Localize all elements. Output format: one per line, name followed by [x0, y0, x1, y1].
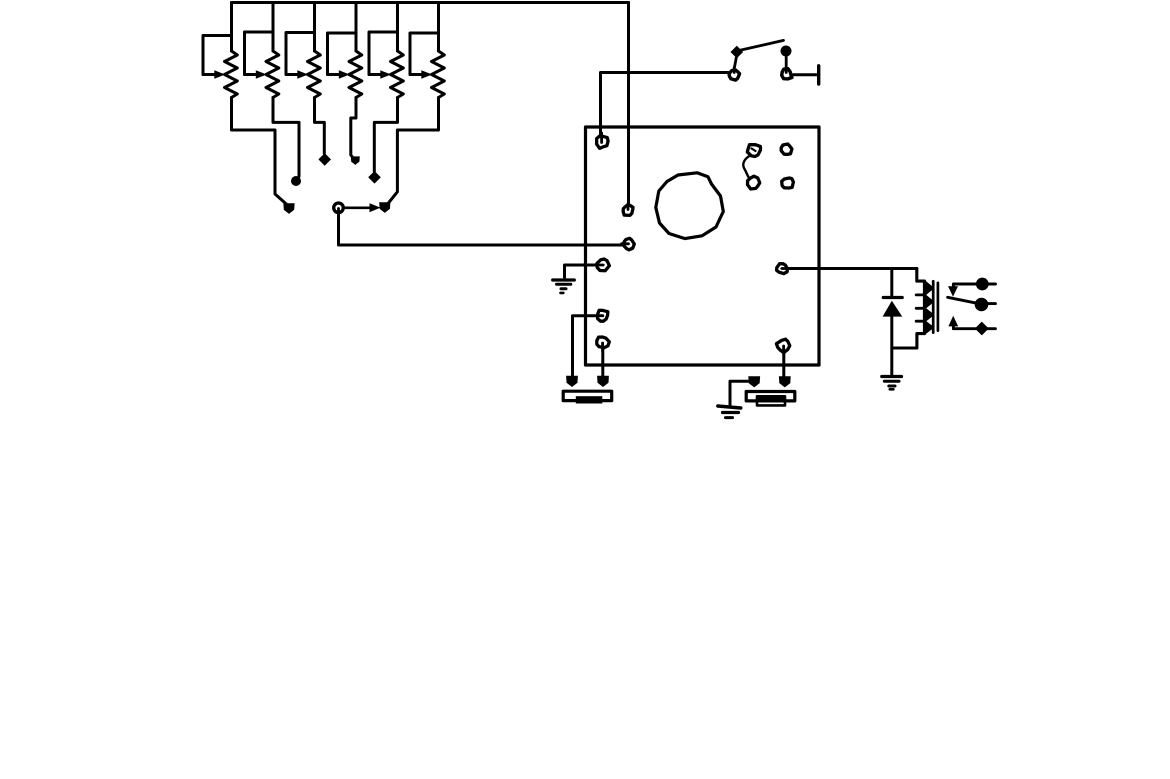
- relay contact NO (bottom): [948, 316, 995, 336]
- wire pin8 to crystal Y2: [782, 352, 785, 377]
- terminator bar: [817, 66, 820, 84]
- relay contact NC (top): [948, 278, 996, 297]
- wire top bus: [232, 1, 629, 4]
- jumper between pads A and B: [743, 156, 750, 179]
- ground G2: [718, 406, 741, 418]
- module pin 1: [597, 136, 609, 148]
- wire stub into pin 6: [601, 343, 604, 351]
- module pad B: [748, 176, 760, 189]
- wire bus drop to module pin 2: [627, 3, 630, 205]
- wire stub into S1 left pole: [733, 68, 736, 73]
- wire stub into pin 5: [597, 314, 603, 317]
- wire stub into pin 7: [782, 267, 788, 270]
- wire Y2 to ground: [730, 381, 749, 404]
- module pin 4: [597, 259, 610, 271]
- module pin 2: [623, 204, 633, 215]
- wire stub into pin 1: [600, 133, 603, 143]
- wire pin7 to relay coil: [788, 267, 917, 270]
- wire S1 feed: [601, 73, 729, 135]
- wire stub into pin 2: [627, 204, 630, 210]
- wire stub into pin 4: [597, 264, 603, 267]
- pad A inner mark: [752, 149, 756, 152]
- module pad A: [747, 145, 760, 157]
- diode CR1: [883, 269, 903, 375]
- potentiometer R1: [203, 3, 295, 214]
- wire pin4 to ground: [565, 265, 598, 277]
- module pad D: [782, 178, 794, 188]
- potentiometer R5: [368, 3, 403, 184]
- switch S1: [729, 40, 792, 80]
- relay contact common (lever): [948, 297, 996, 311]
- crystal Y1: [563, 391, 612, 403]
- wire stub from selector pivot: [337, 209, 340, 215]
- potentiometer R3: [286, 3, 331, 166]
- potentiometer R2: [245, 3, 302, 187]
- module pad C: [781, 144, 792, 154]
- crystal Y2: [746, 392, 795, 406]
- module pin 5: [598, 310, 608, 321]
- potentiometer R4: [328, 3, 362, 165]
- transformer core bars: [933, 281, 938, 332]
- wire S1 to terminator: [793, 73, 817, 76]
- crystal Y2 lead dot left: [748, 376, 760, 387]
- module pin 3: [623, 238, 634, 250]
- rotary selector SW1 wiper pivot: [334, 203, 344, 213]
- module pin 6: [597, 337, 610, 348]
- module U1 outline: [586, 127, 820, 365]
- crystal Y2 lead dot right: [779, 376, 791, 387]
- crystal Y1 lead dot right: [597, 376, 609, 387]
- ground G1: [553, 280, 575, 293]
- relay coil K1: [893, 269, 933, 349]
- module pin 7: [777, 264, 788, 274]
- module U1 circle (speaker opening): [656, 173, 724, 239]
- ground G3: [882, 377, 902, 390]
- wire selector to module pin: [339, 212, 623, 245]
- wire pin6 to crystal Y1: [601, 349, 604, 377]
- potentiometer R6: [379, 3, 444, 213]
- module pin 8: [776, 339, 789, 352]
- crystal Y1 lead dot left: [566, 376, 578, 387]
- wire pin5 to crystal Y1: [573, 316, 598, 377]
- wire stub into S1 right pole: [785, 68, 788, 73]
- wire stub into pin 3: [622, 242, 629, 245]
- rotary selector SW1 wiper arrow: [343, 203, 381, 212]
- wire stub into pin 8: [782, 346, 785, 354]
